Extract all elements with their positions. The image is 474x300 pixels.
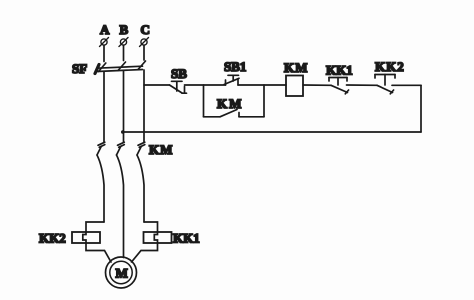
svg-text:B: B [120,22,129,37]
pushbutton SB (NC stop button) [170,66,188,93]
svg-text:SB: SB [171,66,187,81]
pushbutton SB1 (NO start button) [224,59,246,85]
wire: SB1 to KM coil [238,84,286,86]
switch SF (3-pole disconnect) [72,61,146,76]
wire: SF pole A down to KM contact [103,72,105,142]
node C (phase terminal C) [140,22,150,47]
wire: bottom of auxiliary branch [204,116,221,118]
wire: terminal A down to SF [103,45,105,61]
node A (phase terminal A) [100,22,111,47]
wire: control tap from phase C to SB [144,84,170,86]
svg-text:A: A [100,22,110,37]
wire: terminal C down to SF [143,45,145,60]
svg-text:M: M [116,266,128,281]
contact KM (auxiliary self-holding, NO) [217,96,264,117]
svg-text:KK2: KK2 [375,59,405,74]
svg-text:KM: KM [284,60,308,75]
wire: KK2 to right edge [392,84,421,86]
wire: KM coil to KK1 contact [303,84,331,86]
contactor KM main contact pole B [117,142,125,257]
thermal contact KK1 (NC) [326,63,353,94]
svg-text:KK1: KK1 [173,231,200,246]
wire: auxiliary branch up to main wire [263,85,265,117]
wire: KK1 to KK2 [347,84,378,86]
wire: phase A jog to heater KK2 [86,222,104,232]
svg-text:SB1: SB1 [224,59,246,74]
wire: SF pole B down to KM contact [123,71,125,142]
heater element KK2 (thermal relay) [39,231,100,246]
svg-text:KK2: KK2 [39,231,66,246]
node B (phase terminal B) [119,22,129,47]
wire: terminal B down to SF [123,45,125,60]
svg-text:KM: KM [149,142,173,157]
coil KM (contactor coil) [284,60,308,96]
wire: SB to SB1 [185,84,226,86]
wire: right vertical down [420,85,422,132]
wire: branch down for KM auxiliary contact [203,85,205,117]
wire: phase C jog to heater KK1 [144,222,158,232]
svg-text:KK1: KK1 [326,63,353,78]
motor M [106,257,137,288]
contactor KM main contact pole C [137,142,145,222]
heater element KK1 (thermal relay) [144,231,200,246]
wire: SF pole C down to KM contact [143,70,145,142]
contactor KM main contact pole A [97,142,105,222]
thermal contact KK2 (NC) [375,59,405,94]
svg-text:SF: SF [72,61,87,76]
svg-text:C: C [141,22,150,37]
svg-text:KM: KM [217,96,243,111]
wire: heater KK1 to motor [132,243,158,262]
junction at phase B [121,130,125,134]
wire: bottom return to phase B [123,131,422,133]
wire: heater KK2 to motor [86,243,111,262]
